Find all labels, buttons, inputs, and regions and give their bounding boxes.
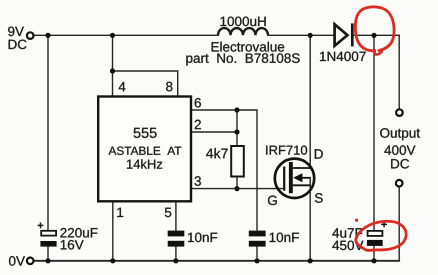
pin label G xyxy=(268,196,277,206)
label 9V DC xyxy=(8,27,24,37)
node rail-10nF second xyxy=(254,258,259,263)
capacitor C3 10nF xyxy=(249,231,266,247)
wire 4u7 to bottom rail xyxy=(373,246,375,261)
pin label 8 xyxy=(166,82,172,92)
pin label 5 xyxy=(165,208,171,217)
wire top rail left: 9V terminal to inductor xyxy=(35,34,218,36)
label 4k7 xyxy=(206,148,228,158)
annotation red dot xyxy=(355,219,358,222)
pin label 3 xyxy=(195,176,201,186)
label 220uF xyxy=(60,228,97,238)
node pin6-resistor xyxy=(234,107,239,112)
wire drain to top rail xyxy=(309,35,311,168)
node rail-555 supply xyxy=(110,33,115,38)
wire left branch to 220uF xyxy=(47,35,49,231)
pin label S xyxy=(315,193,323,203)
label 4u7F xyxy=(332,228,362,237)
label 1000uH xyxy=(221,17,266,27)
wire second 10nF to bottom rail xyxy=(256,247,258,261)
transistor Q1 IRF710 MOSFET xyxy=(275,159,314,198)
node rail-drain xyxy=(308,33,313,38)
label 1N4007 xyxy=(320,52,366,62)
node output negative terminal xyxy=(396,180,403,187)
node rail-10nF xyxy=(173,258,178,263)
capacitor C4 4u7F 450V electrolytic xyxy=(367,222,387,246)
label 14kHz xyxy=(127,159,162,168)
label 450V xyxy=(332,241,363,251)
pin label 4 xyxy=(119,82,126,91)
node 9V input terminal xyxy=(27,32,34,39)
pin label D xyxy=(315,149,323,158)
label 10nF xyxy=(188,233,217,243)
wire pins 6-2 junction down to resistor xyxy=(236,110,238,146)
wire 10nF to bottom rail xyxy=(175,247,177,261)
node output positive terminal xyxy=(396,109,403,116)
wire supply feed to 555 pins 4,8 xyxy=(113,35,178,96)
label IRF710 xyxy=(266,146,307,155)
node rail-4u7 xyxy=(371,258,376,263)
wire output top branch xyxy=(398,35,400,108)
wire top rail mid: inductor to diode xyxy=(268,34,334,36)
wire pin 5 to 10nF xyxy=(175,201,177,230)
wire pin 1 to bottom rail xyxy=(112,201,114,260)
wire source to bottom rail xyxy=(309,178,311,261)
label 16V xyxy=(61,240,84,250)
wire output bottom branch xyxy=(398,187,400,260)
capacitor C1 220uF electrolytic xyxy=(38,223,57,247)
node pins 4-8 tee xyxy=(110,68,115,73)
wire pin 3 to MOSFET gate xyxy=(191,188,283,190)
node rail-pin1 xyxy=(110,258,115,263)
node rail-220uF bottom xyxy=(45,258,50,263)
capacitor C2 10nF xyxy=(168,231,185,247)
annotation red ellipse around 4u7 capacitor xyxy=(356,221,406,250)
inductor L1 1000uH coil xyxy=(218,28,268,35)
resistor R1 4k7 xyxy=(231,146,244,177)
IC U1 555 box xyxy=(98,97,191,202)
label ASTABLE AT xyxy=(109,147,182,155)
node rail-source xyxy=(308,258,313,263)
node diode cathode junction xyxy=(371,33,376,38)
label 555 xyxy=(134,128,157,138)
diode D1 1N4007 xyxy=(335,23,353,46)
node pin2-resistor xyxy=(234,129,239,134)
wire 220uF to bottom rail xyxy=(47,247,49,261)
wire 4u7 branch from diode node xyxy=(373,35,375,230)
wire resistor bottom to pin 3 line xyxy=(236,177,238,189)
label part No. B78108S xyxy=(186,53,299,65)
wire pin 6 over to vertical xyxy=(191,110,257,230)
pin label 2 xyxy=(195,120,201,129)
wire pin 2 xyxy=(191,131,237,133)
node pin3-resistor xyxy=(234,186,239,191)
node rail-220uF xyxy=(45,33,50,38)
annotation red circle around diode output node xyxy=(355,7,394,55)
wire top rail right: diode to corner xyxy=(354,34,400,36)
pin label 6 xyxy=(195,98,201,108)
label 0V xyxy=(9,256,25,266)
wire bottom rail xyxy=(35,260,399,262)
node 0V terminal xyxy=(27,258,34,265)
pin label 1 xyxy=(117,208,123,217)
label 10nF xyxy=(270,233,299,243)
label Electrovalue xyxy=(212,42,285,52)
label Output 400V DC xyxy=(380,128,420,140)
